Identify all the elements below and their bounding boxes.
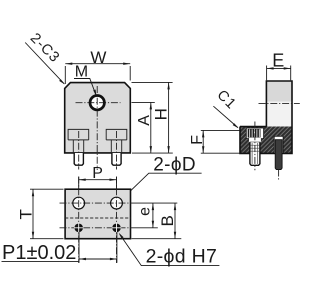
svg-text:F: F [189,135,206,145]
svg-text:P1±0.02: P1±0.02 [2,242,76,264]
svg-text:2-C3: 2-C3 [27,30,63,66]
svg-text:M: M [75,63,88,80]
svg-text:T: T [16,209,35,219]
svg-text:E: E [272,50,284,70]
svg-text:C1: C1 [214,87,240,113]
svg-text:2-ϕD: 2-ϕD [153,155,196,176]
svg-text:A: A [136,115,153,126]
svg-text:e: e [137,207,154,216]
svg-text:W: W [90,48,106,67]
svg-text:H: H [151,108,170,120]
svg-text:2-ϕd H7: 2-ϕd H7 [146,245,218,267]
svg-text:B: B [158,215,177,226]
svg-text:P: P [92,165,103,182]
